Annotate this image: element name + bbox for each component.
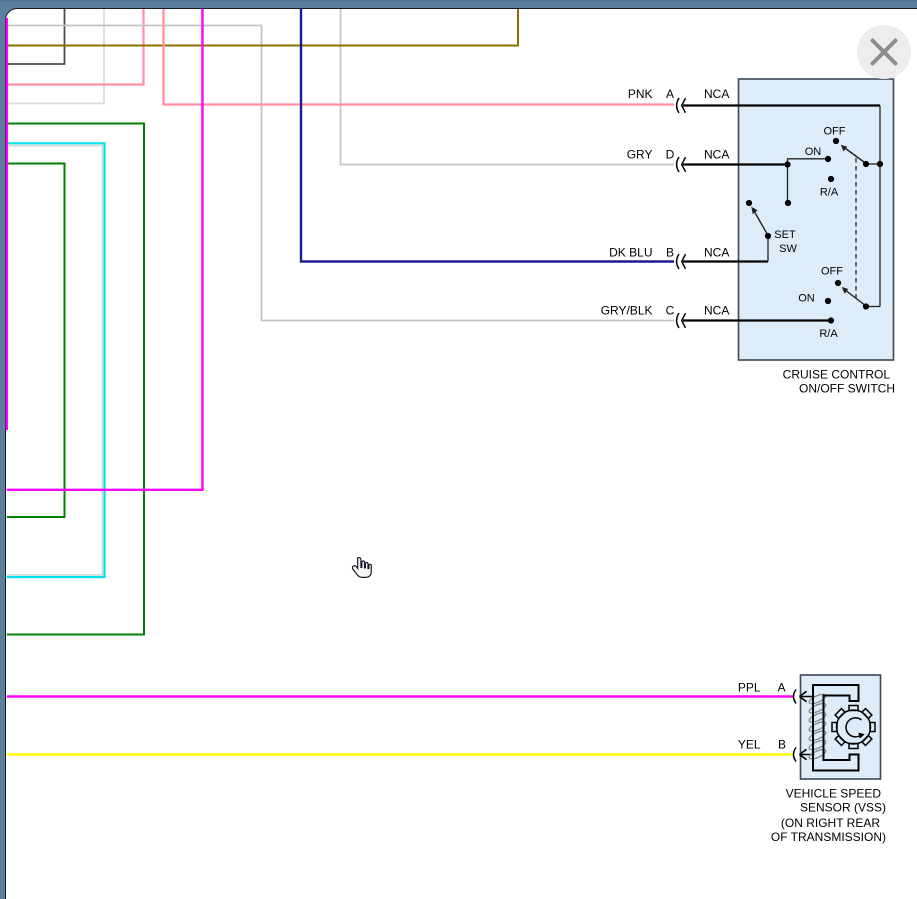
svg-text:OFF: OFF	[824, 126, 846, 138]
VSS connector B symbol	[794, 748, 797, 762]
svg-text:OFF: OFF	[821, 266, 843, 278]
svg-text:(ON RIGHT REAR: (ON RIGHT REAR	[781, 816, 880, 830]
svg-text:PPL: PPL	[738, 681, 761, 695]
svg-text:R/A: R/A	[820, 187, 839, 199]
svg-text:GRY/BLK: GRY/BLK	[601, 304, 653, 318]
contact dots upper switch	[877, 161, 883, 167]
svg-text:A: A	[777, 681, 785, 695]
svg-text:SET: SET	[774, 229, 796, 241]
SET SW blade	[754, 211, 768, 236]
connector C black lead into box	[683, 319, 831, 321]
wire dark gray (top left)	[7, 9, 65, 64]
svg-text:GRY: GRY	[627, 148, 653, 162]
svg-text:DK BLU: DK BLU	[609, 246, 652, 260]
VSS rotation arrow	[846, 718, 862, 737]
contact dots lower switch	[835, 280, 841, 286]
svg-text:NCA: NCA	[704, 148, 729, 162]
svg-text:SW: SW	[779, 243, 797, 255]
VSS connector A symbol	[794, 690, 797, 704]
connector B black lead into box	[683, 260, 768, 262]
connector A female symbol	[677, 98, 679, 113]
upper pole stub	[866, 163, 880, 165]
B riser to SET blade	[767, 236, 769, 262]
lower pole stub	[866, 306, 880, 308]
upper ON link to D	[788, 159, 829, 165]
svg-text:C: C	[666, 304, 675, 318]
svg-text:YEL: YEL	[738, 738, 761, 752]
svg-text:ON: ON	[798, 293, 815, 305]
connector B female symbol	[677, 254, 679, 269]
VSS reluctor wheel	[837, 710, 871, 744]
close button	[857, 25, 911, 79]
connector D black lead into box	[683, 163, 788, 165]
D drop to SET contact	[787, 165, 789, 203]
wire gray GRY/BLK to C	[7, 26, 674, 321]
svg-text:SENSOR (VSS): SENSOR (VSS)	[800, 801, 886, 815]
wire pale gray U (inside cyan)	[7, 146, 103, 575]
mouse cursor	[352, 558, 371, 578]
wire cyan U	[7, 143, 105, 577]
upper switch blade	[844, 147, 867, 164]
cruise control switch box	[739, 79, 894, 360]
VSS coil	[808, 692, 827, 760]
svg-text:OF TRANSMISSION): OF TRANSMISSION)	[771, 830, 886, 844]
wire navy DK BLU to B	[301, 9, 674, 262]
svg-text:B: B	[778, 738, 786, 752]
svg-text:VEHICLE SPEED: VEHICLE SPEED	[786, 786, 882, 800]
svg-text:D: D	[666, 148, 675, 162]
VSS C-core bracket	[813, 685, 859, 771]
contact dots SET switch	[785, 200, 791, 206]
wire brown	[7, 9, 518, 46]
wire light gray horizontal y=103	[7, 9, 104, 104]
connector D female symbol	[677, 157, 679, 172]
connector A black lead into box	[683, 104, 880, 106]
switch pole line from A	[879, 106, 881, 307]
svg-text:PNK: PNK	[628, 87, 653, 101]
svg-text:ON/OFF SWITCH: ON/OFF SWITCH	[799, 381, 895, 395]
svg-text:A: A	[666, 87, 674, 101]
wire magenta main	[7, 9, 203, 490]
wire green outer U	[7, 124, 144, 635]
svg-text:B: B	[666, 246, 674, 260]
wire magenta left edge	[6, 18, 8, 430]
connector C female symbol	[677, 313, 679, 328]
wire magenta PPL to VSS A	[7, 695, 793, 698]
wire pink PNK to A	[164, 9, 675, 105]
svg-text:CRUISE CONTROL: CRUISE CONTROL	[783, 368, 891, 382]
wire green inner U	[7, 164, 65, 518]
svg-text:R/A: R/A	[819, 328, 838, 340]
wire yellow YEL to VSS B	[7, 753, 793, 756]
wire gray GRY to D	[341, 9, 675, 165]
VSS sensor box	[801, 675, 881, 779]
svg-text:NCA: NCA	[704, 304, 729, 318]
lower switch blade	[845, 290, 867, 307]
dashed linkage	[855, 158, 857, 298]
svg-text:NCA: NCA	[704, 246, 729, 260]
svg-text:NCA: NCA	[704, 87, 729, 101]
wire pink short (x=143)	[7, 9, 144, 85]
svg-text:ON: ON	[805, 146, 822, 158]
